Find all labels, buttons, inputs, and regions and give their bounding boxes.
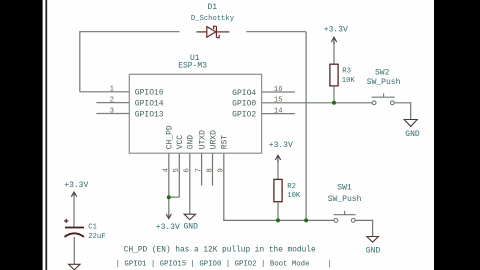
svg-text:10K: 10K bbox=[287, 192, 301, 200]
svg-text:1: 1 bbox=[110, 86, 114, 94]
junction R3 / GPIO0 net bbox=[332, 101, 336, 105]
pin 8 URXD bbox=[212, 153, 214, 185]
capacitor C1 bbox=[73, 196, 75, 227]
power +3.3V arrow above R2 bbox=[275, 155, 280, 162]
pin 4 CH_PD bbox=[168, 153, 170, 214]
switch SW1 bbox=[334, 211, 356, 223]
svg-text:2: 2 bbox=[110, 96, 114, 104]
svg-text:9: 9 bbox=[218, 168, 226, 172]
svg-text:GND: GND bbox=[187, 135, 196, 150]
svg-text:+3.3V: +3.3V bbox=[64, 181, 88, 190]
ground at U1 GND pin bbox=[184, 214, 195, 219]
svg-text:URXD: URXD bbox=[209, 130, 218, 149]
ground below SW1 bbox=[367, 237, 379, 243]
svg-text:7: 7 bbox=[195, 168, 203, 172]
svg-text:R2: R2 bbox=[287, 183, 296, 191]
svg-text:GPIO4: GPIO4 bbox=[232, 89, 256, 98]
svg-text:C1: C1 bbox=[88, 224, 97, 232]
svg-text:| GPIO1 | GPIO15 | GPIO0 | GPI: | GPIO1 | GPIO15 | GPIO0 | GPIO2 | Boot … bbox=[116, 261, 332, 269]
svg-text:VCC: VCC bbox=[176, 135, 185, 150]
svg-text:GPIO0: GPIO0 bbox=[232, 100, 256, 109]
svg-text:22uF: 22uF bbox=[88, 233, 105, 241]
svg-text:GPIO13: GPIO13 bbox=[135, 110, 164, 119]
wire pin1 to GPIO16 bbox=[80, 91, 130, 93]
svg-text:D1: D1 bbox=[207, 3, 217, 12]
svg-text:3: 3 bbox=[110, 107, 114, 115]
resistor R2 bbox=[277, 160, 279, 179]
pin 7 UTXD bbox=[201, 153, 203, 185]
pin 14 GPIO2 bbox=[262, 113, 295, 115]
svg-text:SW_Push: SW_Push bbox=[328, 195, 362, 204]
svg-text:10K: 10K bbox=[342, 77, 356, 85]
wire SW2 to ground bbox=[394, 103, 410, 120]
switch SW2 bbox=[372, 93, 395, 104]
wire from GPIO16 top-left corner to diode anode bbox=[80, 32, 180, 92]
ground below C1 bbox=[69, 264, 80, 270]
svg-text:GPIO16: GPIO16 bbox=[135, 89, 164, 98]
ground below SW2 bbox=[404, 120, 417, 127]
svg-text:GND: GND bbox=[405, 130, 420, 139]
svg-text:CH_PD (EN) has a 12K pullup in: CH_PD (EN) has a 12K pullup in the modul… bbox=[124, 246, 316, 254]
wire diode cathode to right corner bbox=[246, 31, 306, 33]
svg-text:RST: RST bbox=[221, 135, 230, 150]
junction CH_PD to VCC bbox=[169, 196, 180, 198]
svg-text:SW_Push: SW_Push bbox=[367, 78, 401, 87]
pin 16 GPIO4 bbox=[262, 91, 295, 93]
svg-text:15: 15 bbox=[274, 97, 283, 105]
svg-text:4: 4 bbox=[163, 168, 171, 172]
wire SW1 to ground bbox=[355, 220, 372, 236]
power +3.3V arrow above R3 bbox=[331, 37, 336, 44]
pin 2 GPIO14 bbox=[96, 102, 129, 104]
svg-text:14: 14 bbox=[274, 107, 283, 115]
svg-text:GPIO2: GPIO2 bbox=[232, 111, 256, 120]
svg-text:+3.3V: +3.3V bbox=[269, 141, 293, 150]
svg-text:8: 8 bbox=[206, 168, 214, 172]
wire GPIO0 pin15 to SW2 bbox=[262, 102, 373, 104]
svg-text:16: 16 bbox=[274, 86, 283, 94]
pin 3 GPIO13 bbox=[96, 113, 129, 115]
svg-text:6: 6 bbox=[184, 168, 192, 172]
svg-text:5: 5 bbox=[173, 168, 181, 172]
pin 5 VCC bbox=[178, 153, 180, 197]
svg-text:R3: R3 bbox=[342, 67, 351, 75]
svg-text:+3.3V: +3.3V bbox=[156, 223, 180, 232]
svg-text:SW2: SW2 bbox=[375, 68, 390, 77]
svg-text:CH_PD: CH_PD bbox=[166, 125, 175, 149]
svg-text:SW1: SW1 bbox=[337, 184, 352, 193]
svg-text:UTXD: UTXD bbox=[198, 130, 207, 149]
svg-text:+3.3V: +3.3V bbox=[324, 25, 348, 34]
svg-text:D_Schottky: D_Schottky bbox=[191, 15, 235, 23]
svg-text:GND: GND bbox=[366, 247, 381, 256]
power +3.3V down arrow at CH_PD bbox=[166, 214, 171, 219]
wire RST to SW1 bottom net bbox=[224, 153, 334, 220]
wire C1 to ground bbox=[73, 237, 75, 264]
junction diode net / bottom net bbox=[304, 218, 308, 222]
svg-text:GPIO14: GPIO14 bbox=[135, 100, 164, 109]
pin 6 GND bbox=[189, 153, 191, 214]
wire vertical from diode down to bottom net bbox=[305, 32, 307, 221]
diode D1 bbox=[197, 26, 230, 37]
junction R2 / bottom net bbox=[276, 218, 280, 222]
resistor R3 bbox=[333, 42, 335, 64]
IC U1 body bbox=[129, 74, 261, 153]
svg-text:ESP-M3: ESP-M3 bbox=[178, 61, 207, 70]
svg-text:GND: GND bbox=[183, 222, 198, 231]
